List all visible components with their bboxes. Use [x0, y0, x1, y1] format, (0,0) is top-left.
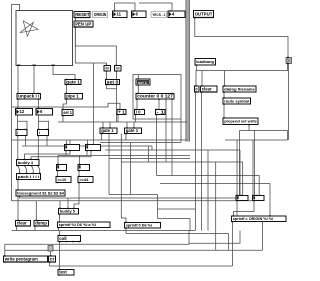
object sel 1 right (selected): [136, 78, 150, 85]
svg-text:>=44: >=44: [79, 177, 89, 182]
wire: PEN UP down to tiny box A: [75, 27, 106, 66]
wire: vertical x109: [108, 134, 110, 195]
object coll: [58, 235, 81, 242]
wire: canvas outlet to unpack left inlet: [17, 66, 19, 94]
object i 0: [135, 109, 145, 115]
wire: linesegment to clear message: [17, 196, 19, 221]
object pack i i i i: [17, 173, 41, 180]
svg-text:loadbang: loadbang: [196, 59, 214, 64]
wire: horizontal y175.5 to e2 right inlet: [157, 176, 260, 196]
wire: right horizontal y140: [225, 139, 288, 141]
wire: bus drop gate b inlet 1: [126, 122, 128, 128]
wire: int box1 to buddy 4 inlet 1: [17, 136, 19, 160]
wire: sprintf1 outlet to bus: [58, 228, 60, 231]
wire: sel 1 left outlet to bus: [62, 115, 64, 122]
number box 6: [132, 10, 147, 17]
wire: unpack outlet to number 12: [17, 99, 19, 109]
message box RESET: [74, 12, 90, 19]
wire: bracket feeding number box 4: [139, 3, 172, 11]
wire: counter outlet to y175.5 line: [171, 99, 173, 176]
wire: horizontal y142.5: [100, 142, 181, 144]
wire: int box2 to buddy 4 inlet 4: [37, 136, 39, 160]
svg-text:gate 1: gate 1: [66, 79, 80, 84]
message box dump: [34, 220, 49, 227]
svg-text:prepend set write: prepend set write: [224, 119, 257, 124]
object pipe 1: [65, 93, 83, 100]
wire: clear outlet to bus: [16, 226, 18, 231]
svg-text:i: i: [17, 130, 18, 135]
wire: g box to cr: [50, 251, 52, 256]
svg-text:RESET: RESET: [75, 12, 90, 17]
wire: c2 outlet down: [86, 151, 88, 156]
wire: c1 jog to buddy inlet 2: [25, 151, 71, 160]
wire: big loop rectangle around counter: [133, 75, 181, 120]
svg-text:sprintf 0 D6 %i: sprintf 0 D6 %i: [126, 224, 152, 228]
wire: d2 to greater 44: [78, 171, 80, 177]
tiny object A: [104, 65, 111, 72]
wire: drop x240 to e1 top: [239, 150, 241, 196]
wire: dialog to route: [223, 92, 225, 98]
svg-text:dump: dump: [35, 221, 47, 226]
wire: OUTPUT to small gray object f: [195, 18, 288, 58]
svg-text:PEN UP: PEN UP: [75, 21, 91, 26]
wire: vertical x287.5 link: [287, 131, 289, 141]
object int left 1: [16, 129, 27, 136]
wire: bus corner down x189: [188, 231, 190, 245]
wire: i 0 outlet to bus: [135, 115, 137, 123]
object greater 10: [56, 176, 71, 183]
wire: drop to c2 top: [87, 140, 89, 145]
svg-text:>=10: >=10: [57, 177, 67, 182]
svg-text:ORIGIN: ORIGIN: [94, 12, 107, 17]
wire: drop x157.5: [157, 195, 159, 219]
wire: sprintf c outlet down to line: [232, 222, 234, 267]
wire: canvas outlet to unpack right inlet: [33, 66, 35, 94]
wire: horizontal y162 to e1 right inlet: [121, 162, 242, 196]
wire: unpack outlet to number 6: [38, 99, 40, 109]
wire: tiny box B down to bus: [116, 71, 118, 122]
object dialog filename: [223, 85, 256, 92]
wire: long horizontal y107 to + 1: [12, 103, 121, 109]
number object d1: [57, 164, 67, 171]
wire: f outlet down right side: [288, 64, 290, 140]
wire: line y250.3: [5, 249, 263, 251]
object gate 1: [65, 79, 81, 85]
wire: vertical x148: [148, 146, 150, 162]
wire: drop d2 top: [79, 156, 81, 165]
wire: long horizontal under gates: [12, 139, 188, 141]
wire: branch down to c2 column: [93, 63, 95, 145]
svg-text:counter 0 0 127: counter 0 0 127: [137, 94, 173, 99]
wire: branch down to clear message: [201, 71, 203, 87]
comment YECS-1: [151, 12, 167, 18]
wire: horizontal y218.6 right: [158, 219, 191, 231]
wire: plus 1 outlet to bus: [117, 115, 119, 123]
wire: bus drop gate b inlet 2: [133, 122, 135, 128]
wire: horizontal bus to gates: [58, 121, 188, 123]
svg-text:gate 1: gate 1: [101, 128, 114, 133]
object - 1: [156, 109, 166, 115]
wire: bus drop gate a inlet 2: [109, 122, 111, 128]
number box 11: [113, 10, 128, 17]
wire: pipe outlet to sel 1 left: [63, 99, 67, 110]
wire: counter to - 1: [158, 99, 160, 110]
message box PEN UP: [74, 21, 93, 28]
wire: drop to c1 top: [66, 140, 68, 145]
svg-text:clear: clear: [17, 221, 27, 226]
svg-text:sprintf %i D6 %i a %i: sprintf %i D6 %i a %i: [59, 223, 96, 227]
wire: buddy4 outlet4 cross to pack: [38, 166, 40, 174]
wire: c1 outlet down: [65, 151, 67, 156]
wire: write pentagram feed: [4, 244, 6, 256]
wire: vertical x121: [121, 134, 126, 223]
wire: coll inlet from bus: [59, 231, 61, 236]
message box set 0: [106, 79, 120, 85]
svg-text:buddy 5: buddy 5: [60, 209, 76, 214]
wire: drop to dump message: [35, 201, 37, 221]
object greater 44: [78, 176, 93, 183]
object sel 1 left: [62, 109, 73, 116]
object + 1: [117, 109, 126, 115]
wire: branch down to dialog filename: [224, 71, 226, 87]
wire: coll outlet to text: [59, 241, 61, 270]
wire: horizontal y194.5: [109, 194, 158, 196]
svg-text:route symbol: route symbol: [224, 98, 249, 103]
wire: long line y266: [50, 265, 233, 267]
wire: loadbang down to 0 message: [196, 65, 198, 71]
message box clear 2: [201, 85, 218, 92]
object gate a: [100, 127, 117, 134]
wire: horizontal y209: [158, 208, 196, 210]
svg-text:i 0: i 0: [136, 109, 141, 114]
object int left 2: [37, 129, 48, 136]
message box write pentagram: [4, 255, 48, 262]
wire: prepend outlet down: [248, 125, 250, 131]
wire: tiny box A to set 0: [106, 71, 108, 80]
wire: buddy4 outlet2 cross to pack: [25, 166, 27, 174]
wire: dump outlet to bus: [34, 226, 36, 231]
wire: 0 message outlet down: [194, 92, 196, 231]
wire: linesegment outlet long line to e1: [20, 196, 237, 198]
wire: number 6 to int box 2: [38, 115, 40, 130]
number box 6 lower: [36, 108, 53, 115]
svg-text:sel 1: sel 1: [63, 110, 72, 115]
message box OUTPUT: [194, 11, 214, 19]
wire: number 6 jog to int box 2 right inlet: [39, 121, 49, 129]
number box 12: [16, 108, 33, 115]
wire: canvas outlet to gate inlet: [53, 66, 75, 80]
wire: bottom bus y230.5: [12, 230, 196, 232]
thick segmented patch cord (vertical band): [186, 0, 190, 142]
object unpack i i: [17, 93, 41, 100]
wire: left vertical long line to e2: [12, 200, 253, 202]
object sprintf 0 D6 %i: [125, 222, 161, 229]
number box 4: [168, 10, 185, 17]
wire: horizontal y146: [22, 145, 152, 147]
wire: rect right edge down: [180, 119, 182, 143]
wire: horizontal y155.5 to d boxes: [58, 155, 190, 157]
wire: counter outlet to y162 line: [165, 99, 167, 162]
message box clear: [16, 220, 31, 227]
small gray box g: [48, 246, 53, 252]
wire: number 12 to int box 1: [17, 115, 19, 130]
wire: drop x237 y140 to e1: [236, 140, 238, 196]
wire: rect feed sel 1 top: [137, 75, 139, 80]
wire: bus drop gate a inlet 1: [102, 122, 104, 128]
wire: c2 jog to buddy inlet 3: [31, 151, 91, 160]
wire: gate b outlet down: [125, 134, 127, 141]
canvas U1 (graphics window): [16, 11, 73, 66]
wire: bottom line y244.3: [5, 243, 189, 245]
wire: pack to linesegment: [17, 180, 19, 191]
wire: int outlets to y146 line: [25, 136, 27, 147]
svg-text:unpack i i: unpack i i: [18, 94, 39, 99]
wire: drop x253 y140 to e2: [252, 140, 254, 196]
number object e1: [236, 195, 248, 201]
svg-text:cr: cr: [50, 256, 55, 261]
wire: corner x228.5 down: [228, 234, 230, 251]
wire: e1 outlet to sprintf c: [236, 201, 238, 217]
number object c2: [86, 144, 101, 151]
wire: drop x152 link: [151, 146, 153, 150]
object linesegment $1 $2 $3 $4: [16, 189, 65, 196]
wire: vertical x215.7: [215, 162, 217, 250]
wire: sel 1 down to counter: [137, 85, 139, 94]
svg-text:OUTPUT: OUTPUT: [195, 11, 213, 16]
wire: bottom line y233.5: [126, 233, 229, 235]
wire: drop d1 top: [57, 156, 59, 165]
object sprintf c ORIGIN %i %i: [232, 215, 287, 222]
wire: set 0 jog join tinyB column: [107, 86, 117, 89]
wire: horizontal y150: [105, 149, 240, 151]
wire: drop x270 to sprintf c inlet: [269, 184, 271, 217]
svg-text:dialog filename: dialog filename: [224, 86, 256, 91]
wire: drop to buddy5 inlet a: [59, 201, 61, 209]
svg-text:text: text: [59, 270, 67, 275]
wire: long left vertical feedback to canvas inlet: [12, 5, 20, 201]
svg-text:pipe 1: pipe 1: [66, 94, 79, 99]
svg-text:pack i i i i: pack i i i i: [18, 175, 40, 179]
wire: drop x239.5 to e1: [239, 131, 241, 196]
wire: counter to i 0: [136, 99, 138, 110]
svg-text:11: 11: [117, 12, 122, 17]
svg-text:sprintf c ORIGIN %i %i: sprintf c ORIGIN %i %i: [233, 217, 274, 221]
wire: cr outlet down to long line: [49, 262, 51, 266]
svg-text:linesegment $1 $2 $3 $4: linesegment $1 $2 $3 $4: [17, 191, 65, 195]
wire: buddy5 outlet to sprintf: [59, 214, 61, 222]
wire: e2 outlet jog to sprintf c: [234, 201, 255, 217]
number object d2: [78, 164, 90, 171]
wire: horizontal y158.5: [109, 158, 190, 160]
wire: greater44 jog to buddy5: [74, 183, 79, 209]
svg-text:coll: coll: [59, 236, 66, 241]
wire: gate to pipe: [66, 85, 68, 94]
svg-text:sel 1: sel 1: [138, 80, 148, 85]
wire: horizontal y130.5: [240, 130, 288, 132]
object text: [58, 269, 74, 276]
wire: vertical minus1 down: [156, 115, 158, 176]
wire: gate a outlet down: [101, 134, 103, 141]
wire: buddy4 outlet3 cross to pack: [32, 166, 34, 174]
wire: int2 outlet to y146 line: [46, 136, 48, 147]
object route symbol: [223, 97, 251, 104]
wire: f outlet left to 0/clear/dialog: [196, 64, 288, 87]
object buddy 5: [59, 208, 79, 215]
object prepend set write: [223, 117, 258, 125]
wire: vertical x130: [130, 143, 132, 195]
wire: sprintf0 outlet to line: [125, 228, 127, 234]
wire: horizontal y183.5: [160, 183, 270, 185]
wire: clear2 outlet long down: [201, 92, 203, 231]
object buddy 4: [17, 159, 40, 166]
tiny object B: [115, 65, 122, 72]
message box 0: [195, 85, 200, 92]
svg-text:+ 1: + 1: [118, 109, 125, 114]
svg-text:YECS - 1: YECS - 1: [152, 13, 165, 17]
wire: route to prepend: [223, 105, 225, 119]
star drawing inside canvas: [20, 21, 38, 36]
svg-text:set 0: set 0: [107, 79, 119, 84]
wire: RESET down to tiny box B: [75, 18, 116, 66]
wire: d1 to greater 10: [57, 171, 59, 177]
svg-text:i: i: [39, 130, 40, 135]
wire: drop x254.5 to e2: [254, 131, 256, 196]
svg-text:buddy 4: buddy 4: [18, 160, 34, 165]
wire: buddy4 outlet1 cross to pack: [18, 166, 20, 174]
number object c1: [65, 144, 80, 151]
object gate b: [125, 127, 142, 134]
svg-text:clear: clear: [202, 86, 212, 91]
comment ORIGIN: [93, 12, 108, 18]
wire: number 12 jog to int box 1 right inlet: [18, 121, 27, 129]
object loadbang: [195, 59, 216, 66]
wire: bracket feeding number boxes 11 and 6: [115, 3, 136, 11]
svg-text:12: 12: [20, 109, 25, 114]
wire: drop to c1 top b: [69, 140, 71, 145]
wire: drop to buddy5 inlet b: [67, 198, 69, 209]
wire: corner x240 to y243.3: [189, 231, 240, 244]
svg-text:- 1: - 1: [157, 109, 165, 114]
wire: vertical x208 down to bus: [207, 150, 209, 231]
wire: riser x262.5 from sprintf c: [262, 222, 264, 251]
small gray object f: [286, 57, 292, 64]
number object e2: [252, 195, 264, 201]
object sprintf %i D6 %i a %i: [58, 221, 111, 228]
svg-text:write pentagram: write pentagram: [4, 256, 38, 261]
message box cr: [49, 255, 56, 262]
object counter 0 0 127: [136, 93, 174, 100]
svg-text:gate 1: gate 1: [126, 128, 139, 133]
